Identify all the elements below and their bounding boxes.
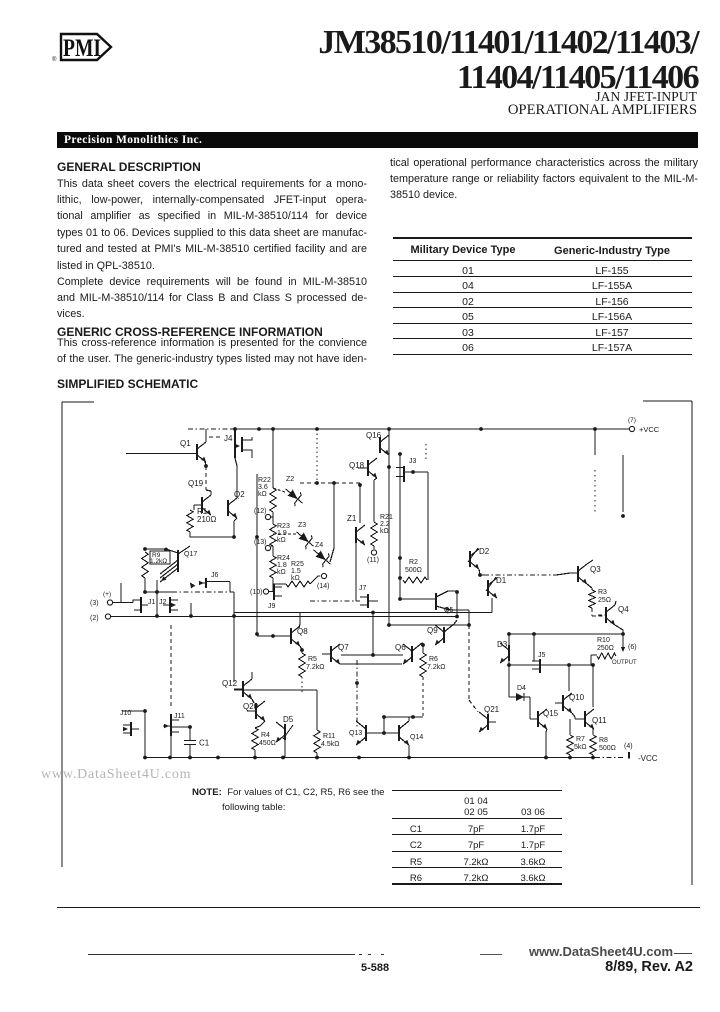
svg-text:(4): (4) bbox=[624, 743, 633, 750]
svg-text:Z3: Z3 bbox=[298, 522, 306, 529]
svg-text:450Ω: 450Ω bbox=[259, 740, 276, 747]
diode D4 bbox=[516, 693, 524, 701]
svg-text:(10): (10) bbox=[250, 589, 262, 596]
PMI logo bbox=[0, 0, 130, 70]
svg-text:R4: R4 bbox=[261, 732, 270, 739]
transistor Q6 bbox=[411, 646, 413, 662]
svg-text:(14): (14) bbox=[317, 583, 329, 590]
svg-text:Q20: Q20 bbox=[243, 702, 259, 711]
wire R1 bottom bbox=[190, 532, 234, 537]
svg-text:R25: R25 bbox=[291, 561, 304, 568]
svg-text:J11: J11 bbox=[174, 713, 185, 720]
wire J11-C1 top link bbox=[171, 726, 190, 728]
wire corner x230-234 bbox=[230, 582, 234, 592]
svg-text:kΩ: kΩ bbox=[291, 575, 300, 582]
NOTE text bbox=[192, 786, 385, 815]
transistor Q20 bbox=[255, 703, 257, 719]
zener Z1 transistor-style bbox=[355, 527, 357, 543]
wire stub above input 3 bbox=[120, 583, 122, 602]
transistor Q21 bbox=[487, 714, 489, 730]
svg-text:Q2: Q2 bbox=[234, 490, 245, 499]
wire J10 to bus bbox=[144, 711, 146, 757]
wire Q17 emitters to x157 bbox=[156, 580, 158, 592]
wire bottom -Vcc bus bbox=[145, 757, 595, 759]
resistor R2 500 bbox=[403, 577, 427, 583]
svg-text:(13): (13) bbox=[254, 539, 266, 546]
right column bbox=[390, 155, 698, 171]
transistor Q10 bbox=[562, 695, 564, 711]
svg-text:(12): (12) bbox=[254, 508, 266, 515]
wire x595 from rail bbox=[594, 429, 596, 455]
wire J3 gate up bbox=[399, 454, 401, 466]
wire Q8 emitter to R5 bbox=[300, 646, 302, 653]
resistor chain top wire x273 bbox=[272, 429, 274, 488]
wire Q1 collector to rail bbox=[205, 429, 207, 442]
wire Q11 collector up bbox=[592, 665, 594, 707]
svg-text:(11): (11) bbox=[367, 557, 379, 564]
svg-text:1.8: 1.8 bbox=[277, 562, 287, 569]
svg-text:(7): (7) bbox=[628, 417, 636, 424]
svg-text:Q21: Q21 bbox=[484, 705, 500, 714]
svg-text:R6: R6 bbox=[429, 656, 438, 663]
wire y613 second level bbox=[234, 612, 492, 614]
wire Q2 collector to rail area bbox=[235, 458, 237, 498]
zener Z2 bbox=[281, 484, 307, 509]
wire x595 dotted bbox=[594, 470, 596, 512]
svg-text:D4: D4 bbox=[517, 685, 526, 692]
wire Q4 collector bbox=[615, 601, 616, 605]
svg-text:kΩ: kΩ bbox=[380, 528, 389, 535]
svg-text:C1: C1 bbox=[199, 739, 210, 748]
wire y592 dash-dot bbox=[172, 591, 230, 593]
jfet J7 bbox=[367, 594, 369, 608]
wire R23-R24 bbox=[272, 546, 274, 556]
jfet J3 bbox=[403, 466, 405, 482]
svg-text:210Ω: 210Ω bbox=[197, 515, 216, 524]
wire J2 drain down bbox=[190, 603, 192, 616]
wire D3 bottom bbox=[508, 661, 510, 665]
wire Q18 emitter to R21 bbox=[374, 478, 377, 480]
resistor R23 1.9k bbox=[270, 524, 276, 546]
svg-text:Q16: Q16 bbox=[366, 431, 382, 440]
jfet J2 bbox=[169, 597, 171, 613]
svg-text:+VCC: +VCC bbox=[639, 425, 660, 434]
transistor Q14 bbox=[398, 725, 400, 741]
svg-text:Q9: Q9 bbox=[427, 626, 438, 635]
transistor Q9 bbox=[443, 627, 445, 643]
title line 1 bbox=[0, 25, 698, 95]
wire x457 bbox=[456, 592, 458, 617]
wire Q5 emitter to x469 bbox=[450, 610, 469, 625]
svg-text:Q11: Q11 bbox=[592, 716, 607, 725]
wire x384 up and y717 bbox=[384, 717, 423, 733]
wire y592 input cascode bbox=[145, 591, 172, 593]
svg-text:R2: R2 bbox=[409, 559, 418, 566]
svg-text:Q14: Q14 bbox=[410, 734, 423, 741]
diode D1 bbox=[487, 580, 489, 596]
svg-text:J6: J6 bbox=[211, 572, 219, 579]
resistor R9 element bbox=[142, 552, 148, 578]
jfet J1 bbox=[140, 597, 142, 613]
wire x234 vertical to Q12 bbox=[233, 592, 235, 682]
wire x357 dash-dot down bbox=[356, 660, 358, 727]
svg-text:Q18: Q18 bbox=[349, 461, 365, 470]
revision bbox=[0, 960, 693, 974]
wire +Vcc rail bbox=[231, 428, 629, 430]
wire y665 bbox=[509, 664, 593, 666]
resistor R5 7.2k bbox=[299, 653, 305, 677]
wire Q1 emitter node bbox=[205, 461, 206, 466]
svg-text:Z1: Z1 bbox=[347, 514, 357, 523]
svg-text:R10: R10 bbox=[597, 637, 610, 644]
svg-text:J1: J1 bbox=[148, 599, 156, 606]
resistor R21 2.2k bbox=[371, 522, 377, 546]
resistor R9 1.2k boxed label bbox=[150, 551, 170, 564]
wire drive down to output bases bbox=[372, 613, 374, 655]
svg-text:2.2: 2.2 bbox=[380, 521, 390, 528]
svg-text:500Ω: 500Ω bbox=[599, 745, 616, 752]
svg-text:D2: D2 bbox=[479, 547, 490, 556]
zener Z3 bbox=[292, 527, 318, 552]
schematic frame top-right segment bbox=[643, 400, 692, 402]
wire D2 down bbox=[479, 569, 480, 575]
wire x469 dashed down bbox=[468, 625, 470, 700]
transistor Q4 bbox=[605, 607, 607, 623]
svg-text:(+): (+) bbox=[103, 591, 111, 598]
schematic frame top-left segment bbox=[62, 401, 94, 403]
wire Q19 base stub bbox=[194, 505, 202, 510]
transistor Q18 bbox=[367, 460, 369, 476]
diode D2 bbox=[469, 551, 471, 567]
footer rule bbox=[57, 907, 700, 909]
wire x428 vertical bbox=[427, 472, 429, 580]
svg-text:R23: R23 bbox=[277, 523, 290, 530]
svg-text:Q17: Q17 bbox=[184, 551, 197, 558]
wire x334 vertical bbox=[333, 483, 335, 548]
wire Z4 to x334 bbox=[330, 548, 334, 562]
wire Q20 emitter to R4 bbox=[255, 721, 265, 728]
svg-text:(3): (3) bbox=[90, 600, 99, 607]
wire x623 vertical bbox=[622, 455, 624, 512]
wire Q6 collector bbox=[412, 643, 423, 651]
node -VCC terminal bbox=[628, 752, 630, 759]
svg-text:J5: J5 bbox=[538, 652, 546, 659]
wire R3 to Q4 dashed bbox=[592, 608, 604, 616]
svg-text:3.6: 3.6 bbox=[258, 484, 268, 491]
wire Q1 base input bbox=[126, 453, 197, 455]
diode D5 bbox=[284, 724, 286, 740]
node output terminal (6) bbox=[622, 634, 624, 650]
wire dash-dot into J7 bbox=[310, 600, 360, 602]
resistor R24 1.8k bbox=[270, 556, 276, 578]
device type table bbox=[393, 237, 692, 239]
resistor R6 7.2k bbox=[422, 645, 424, 653]
resistor R11 4.5k bbox=[314, 730, 320, 753]
footer thin line bbox=[88, 954, 355, 955]
svg-text:Q6: Q6 bbox=[395, 643, 406, 652]
wire Z1 down to J7 bbox=[355, 543, 357, 601]
wire Q19 collector bbox=[206, 490, 211, 495]
transistor Q12 bbox=[242, 681, 244, 697]
wire D5 down bbox=[283, 740, 285, 757]
svg-text:(2): (2) bbox=[90, 615, 99, 622]
wire R9 bottom bbox=[144, 578, 146, 592]
svg-text:Q8: Q8 bbox=[297, 627, 308, 636]
wire R6 dashed down bbox=[422, 677, 424, 717]
svg-text:500Ω: 500Ω bbox=[405, 567, 422, 574]
wire Q2 emitter down bbox=[234, 518, 237, 537]
svg-text:D1: D1 bbox=[496, 576, 507, 585]
svg-text:(6): (6) bbox=[628, 644, 637, 651]
jfet J9 bbox=[273, 584, 275, 600]
wire bottom bus dash-dot to -Vcc bbox=[595, 757, 624, 759]
black header bar bbox=[57, 132, 698, 148]
svg-text:Q10: Q10 bbox=[569, 693, 585, 702]
wire Q7 emitter bbox=[340, 663, 402, 665]
wire dash-dot y575 to Q3 bbox=[484, 574, 556, 576]
wire R7 bottom bbox=[569, 755, 571, 757]
svg-text:250Ω: 250Ω bbox=[597, 645, 614, 652]
resistor R7 bbox=[569, 719, 571, 735]
wire input 3 to J1 bbox=[113, 602, 133, 604]
transistor Q13 bbox=[365, 725, 367, 741]
transistor Q11 bbox=[584, 711, 586, 727]
svg-text:25Ω: 25Ω bbox=[598, 597, 611, 604]
svg-text:1.2kΩ: 1.2kΩ bbox=[150, 558, 167, 565]
svg-text:R21: R21 bbox=[380, 514, 393, 521]
svg-text:7.2kΩ: 7.2kΩ bbox=[306, 664, 324, 671]
transistor Q2 bbox=[227, 500, 229, 516]
svg-text:R24: R24 bbox=[277, 555, 290, 562]
wire R11 bottom bbox=[316, 753, 318, 757]
wire Q18 base stub bbox=[358, 467, 368, 469]
svg-text:Q13: Q13 bbox=[349, 730, 362, 737]
svg-text:R5: R5 bbox=[308, 656, 317, 663]
transistor Q16 bbox=[379, 437, 381, 453]
svg-text:1.5: 1.5 bbox=[291, 568, 301, 575]
svg-text:J4: J4 bbox=[224, 434, 233, 443]
resistor R25 1.5k bbox=[286, 581, 310, 587]
svg-text:J7: J7 bbox=[359, 585, 367, 592]
svg-text:kΩ: kΩ bbox=[277, 569, 286, 576]
wire R5 dotted down bbox=[301, 677, 303, 695]
svg-text:7.2kΩ: 7.2kΩ bbox=[427, 664, 445, 671]
wire x317 dotted from rail bbox=[316, 429, 318, 481]
transistor Q5 bbox=[435, 593, 437, 610]
wire R8 bottom bbox=[592, 755, 594, 757]
svg-text:Q4: Q4 bbox=[618, 605, 629, 614]
svg-text:5kΩ: 5kΩ bbox=[574, 744, 587, 751]
junction dots on bottom bus bbox=[143, 756, 147, 760]
jfet J4 bbox=[234, 430, 236, 458]
schematic frame left border bbox=[61, 402, 63, 867]
transistor Q15 bbox=[537, 711, 539, 727]
svg-text:D5: D5 bbox=[283, 715, 294, 724]
page number bbox=[361, 963, 389, 974]
resistor R3 25ohm bbox=[587, 584, 592, 590]
note table bbox=[392, 790, 562, 791]
node terminal (11) bbox=[373, 546, 375, 549]
node terminal (13) bbox=[271, 545, 273, 547]
schematic frame right border bbox=[691, 401, 693, 885]
resistor R1 210ohm bbox=[187, 510, 193, 532]
wire dotted x426 bbox=[425, 444, 427, 461]
wire R9 top bbox=[145, 549, 178, 553]
wire Q15 emitter down bbox=[546, 729, 547, 757]
watermark bottom right bbox=[529, 945, 673, 958]
zener Z4 bbox=[309, 545, 335, 570]
svg-text:J2: J2 bbox=[159, 599, 167, 606]
wire R25 left bbox=[273, 583, 286, 585]
svg-text:kΩ: kΩ bbox=[258, 491, 267, 498]
wire J11 to bus bbox=[170, 736, 172, 757]
svg-text:R11: R11 bbox=[323, 733, 335, 740]
svg-text:Q19: Q19 bbox=[188, 479, 204, 488]
wire node x257 vertical bbox=[256, 474, 258, 633]
wire R24 to J9 bbox=[272, 578, 274, 592]
transistor Q8 bbox=[290, 628, 292, 644]
wire y625 to x469 bbox=[389, 624, 469, 626]
wire Q9 collector to bus bbox=[444, 620, 457, 632]
wire Q7-Q6 base join bbox=[341, 654, 403, 656]
svg-text:Z2: Z2 bbox=[286, 476, 294, 483]
svg-text:Q12: Q12 bbox=[222, 679, 238, 688]
svg-text:4.5kΩ: 4.5kΩ bbox=[321, 741, 339, 748]
svg-text:J3: J3 bbox=[409, 458, 417, 465]
node +VCC terminal bbox=[629, 426, 634, 431]
wire y634 bbox=[509, 633, 623, 635]
svg-text:R22: R22 bbox=[258, 477, 271, 484]
svg-text:J9: J9 bbox=[268, 603, 276, 610]
resistor R8 500 bbox=[592, 729, 594, 735]
svg-text:R8: R8 bbox=[599, 737, 608, 744]
wire x157 to input bus bbox=[156, 592, 158, 616]
simplified schematic heading bbox=[57, 378, 198, 390]
wire x400 vertical bbox=[399, 454, 401, 599]
junction dots on +Vcc rail bbox=[233, 427, 237, 431]
transistor Q19 bbox=[201, 497, 203, 513]
resistor R21 2.2k stub bbox=[373, 480, 375, 522]
jfet J6 bbox=[205, 578, 207, 588]
subtitle bbox=[0, 90, 697, 104]
resistor R4 450 bbox=[252, 728, 258, 750]
watermark left bbox=[41, 768, 191, 782]
resistor R22 3.6k bbox=[270, 488, 276, 512]
wire Q4 emitter to output node bbox=[615, 625, 623, 634]
wire R4 bottom bbox=[254, 750, 256, 757]
left column bbox=[57, 161, 201, 173]
diode D3 bbox=[508, 645, 510, 661]
svg-text:Q1: Q1 bbox=[180, 439, 191, 448]
transistor Q1 bbox=[196, 444, 198, 460]
transistor Q7 bbox=[330, 646, 332, 662]
svg-text:R3: R3 bbox=[598, 589, 607, 596]
svg-text:Q15: Q15 bbox=[543, 709, 559, 718]
wire y690 to R11 bbox=[234, 690, 317, 730]
wire J5 gate up bbox=[532, 634, 534, 661]
wire long vertical x389 bbox=[388, 429, 390, 625]
wire Z3 link bbox=[273, 533, 296, 535]
svg-text:OUTPUT: OUTPUT bbox=[612, 660, 637, 666]
wire R22-R23 bbox=[272, 512, 274, 524]
ground arrow near J6 bbox=[188, 582, 194, 589]
wire D1 links bbox=[480, 575, 492, 613]
svg-text:-VCC: -VCC bbox=[638, 754, 658, 763]
node terminal (12) bbox=[271, 516, 273, 518]
svg-text:Q7: Q7 bbox=[338, 643, 349, 652]
wire x509 down to D4 bbox=[508, 665, 510, 697]
wire Q1-Q19 dashed link bbox=[205, 466, 207, 490]
wire Q1 to J4 dashed bbox=[209, 436, 221, 438]
svg-text:Z4: Z4 bbox=[315, 542, 323, 549]
wire input 2 long bbox=[111, 616, 457, 618]
transistor Q17 multi-emitter bbox=[177, 550, 179, 572]
wire Q14 emitter down bbox=[408, 745, 410, 757]
node terminal (14) bbox=[310, 576, 320, 584]
wire x360 vertical bbox=[359, 485, 361, 523]
wire Z2 link bbox=[273, 488, 285, 492]
svg-text:D3: D3 bbox=[497, 640, 508, 649]
resistor R10 250 bbox=[597, 653, 616, 659]
svg-text:Q3: Q3 bbox=[590, 565, 601, 574]
svg-text:kΩ: kΩ bbox=[277, 537, 286, 544]
wire dashed y483 bbox=[300, 482, 360, 484]
capacitor C1 bbox=[189, 727, 191, 740]
jfet J5 bbox=[539, 659, 541, 673]
wire +Vcc rail dashed lead-in bbox=[188, 428, 231, 430]
transistor Q3 bbox=[577, 566, 579, 582]
svg-text:R7: R7 bbox=[576, 736, 585, 743]
